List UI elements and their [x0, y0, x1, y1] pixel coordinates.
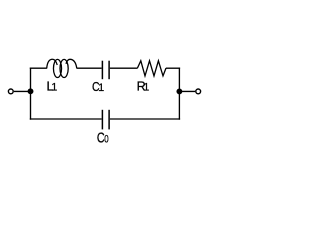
label C0 — [97, 131, 109, 147]
inductor L1 — [47, 59, 77, 77]
resistor R1 — [137, 61, 166, 76]
label R1 — [137, 80, 150, 94]
label L1 — [47, 80, 58, 94]
wire — [110, 118, 180, 120]
wire — [30, 67, 47, 69]
wire — [77, 67, 102, 69]
svg-text:1: 1 — [51, 82, 57, 94]
wire — [179, 90, 195, 92]
capacitor C0 — [102, 110, 109, 130]
node B — [176, 88, 182, 94]
node A — [28, 88, 34, 94]
wire — [30, 118, 102, 120]
svg-text:1: 1 — [143, 82, 149, 94]
terminal left — [8, 89, 13, 94]
terminal right — [196, 89, 201, 94]
svg-text:1: 1 — [98, 82, 104, 94]
wire — [110, 67, 138, 69]
label C1 — [92, 80, 104, 94]
wire — [14, 90, 31, 92]
wire — [166, 67, 180, 69]
capacitor C1 — [102, 61, 109, 79]
wire — [178, 68, 180, 120]
wire — [30, 68, 32, 120]
svg-text:0: 0 — [104, 134, 108, 146]
